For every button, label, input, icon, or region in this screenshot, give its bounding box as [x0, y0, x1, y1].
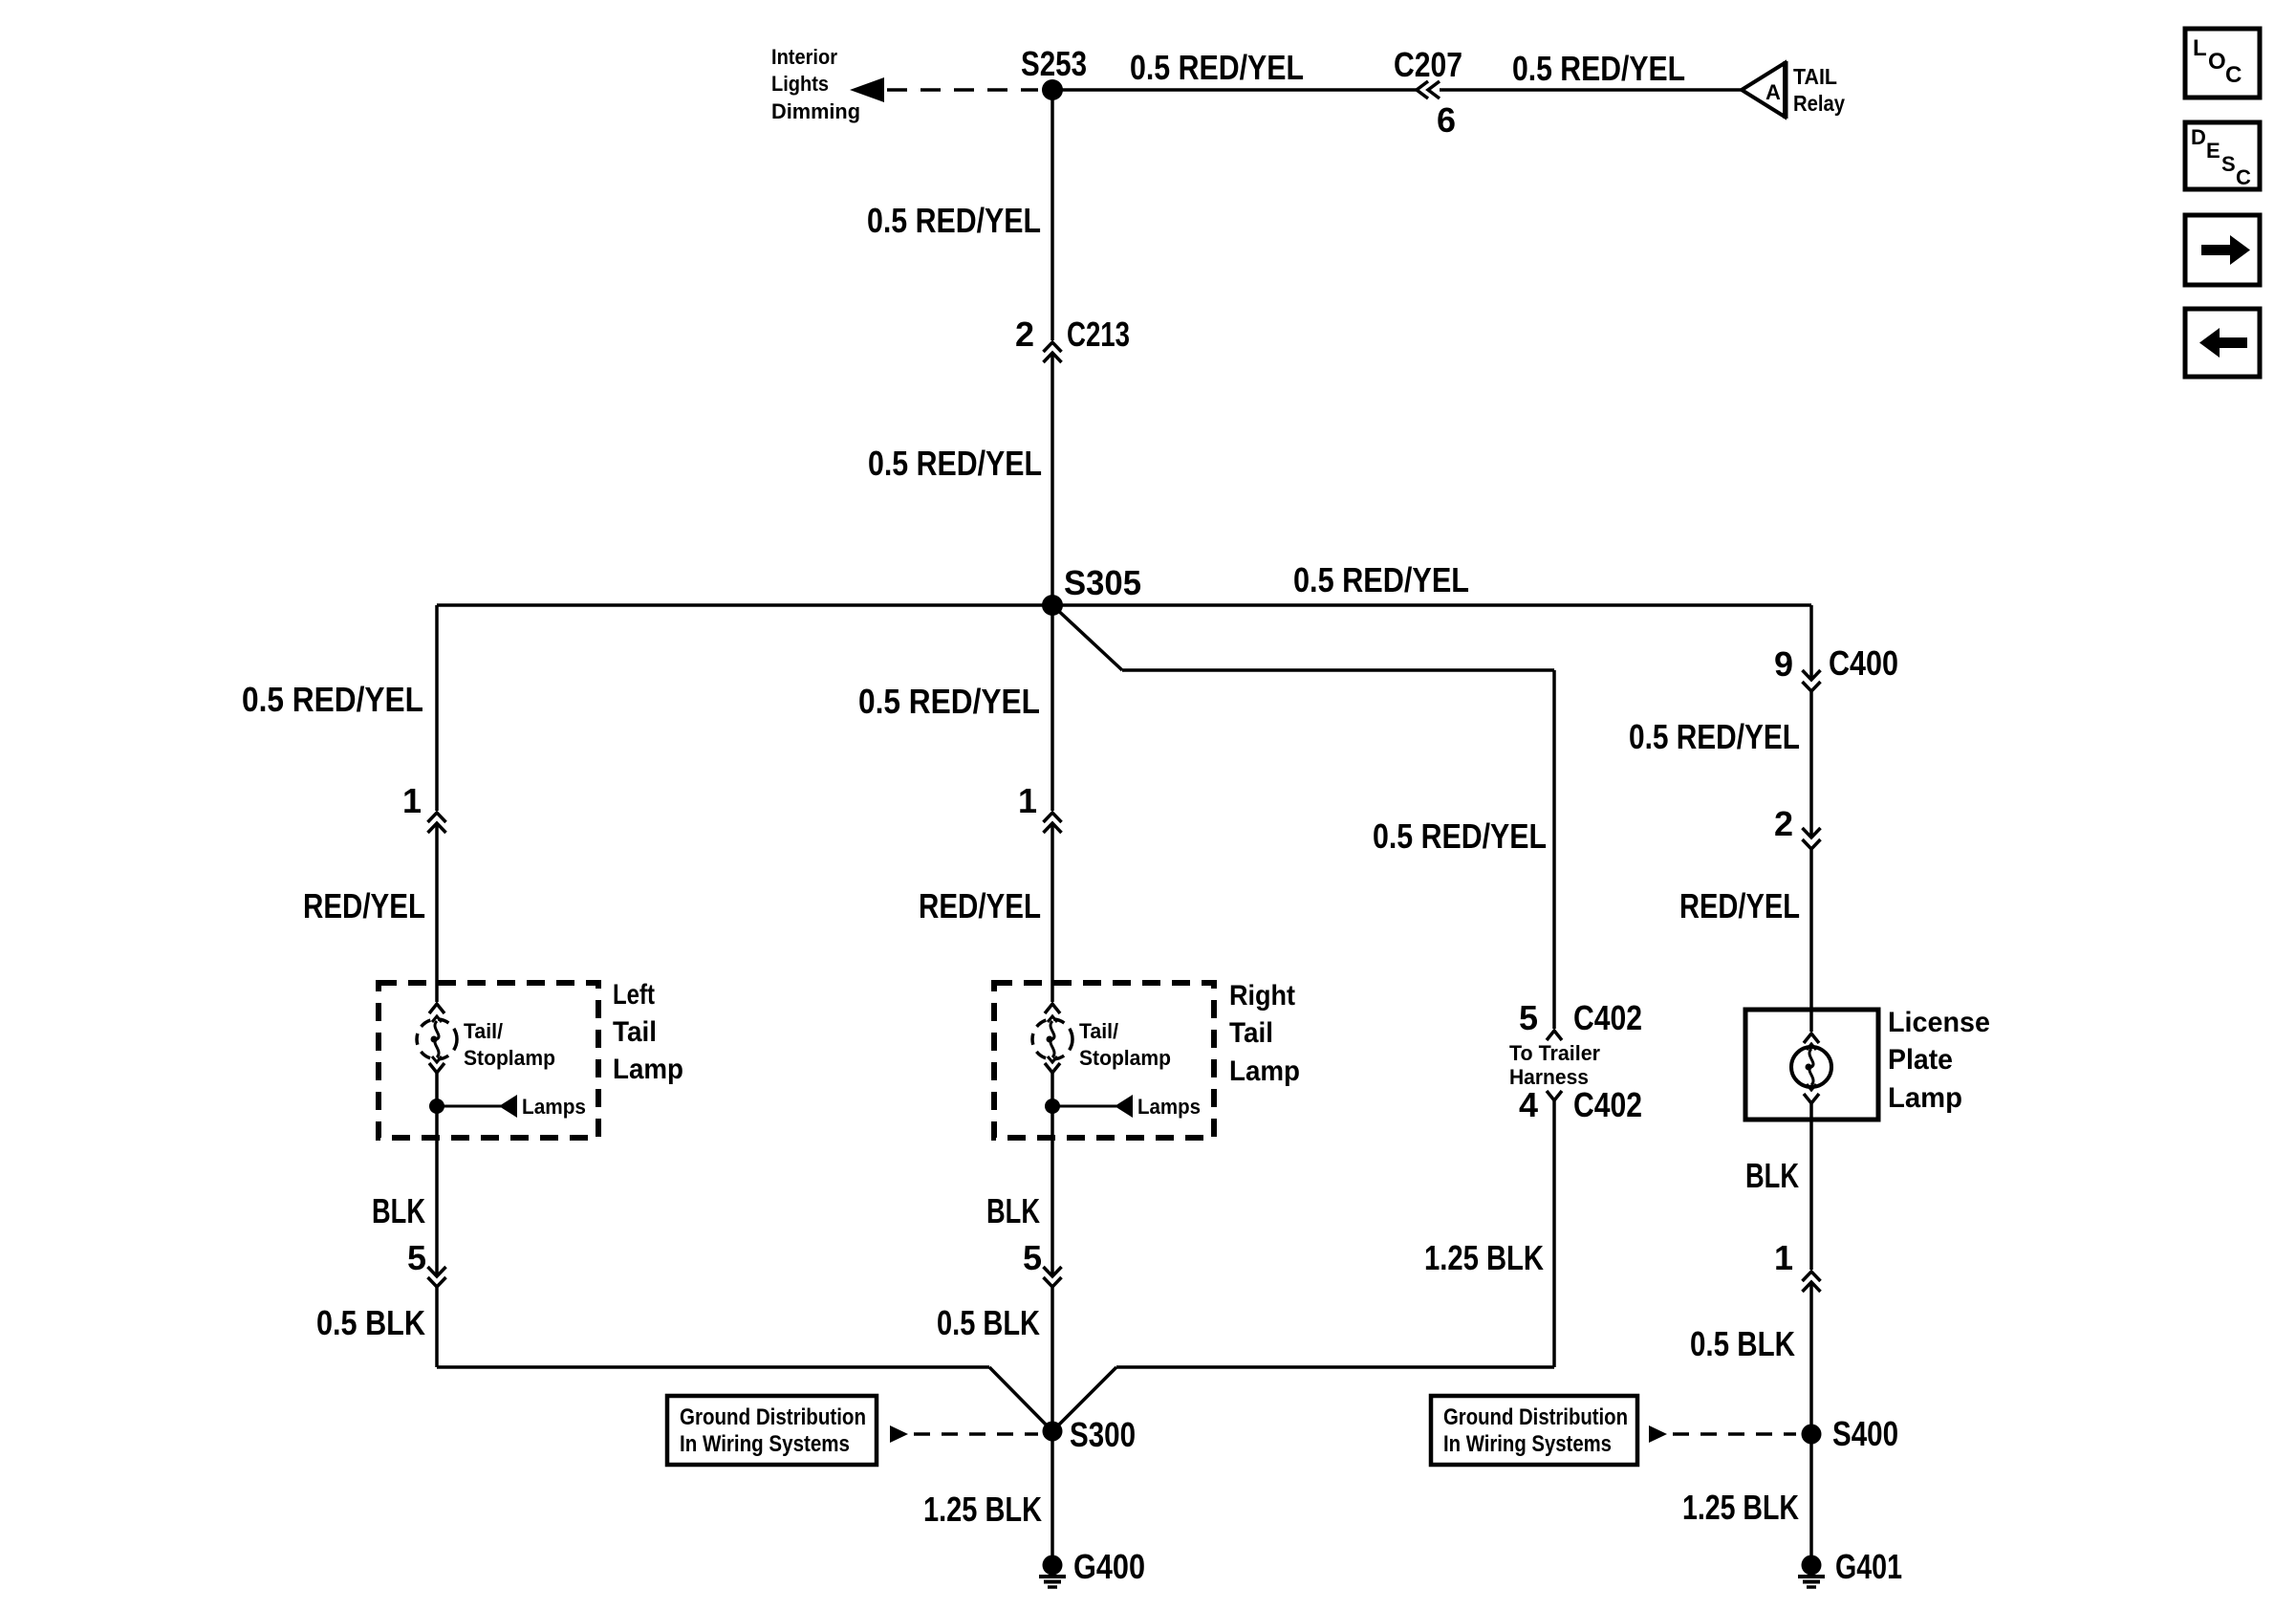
svg-text:5: 5 — [407, 1238, 426, 1277]
svg-text:RED/YEL: RED/YEL — [1679, 886, 1800, 925]
svg-text:9: 9 — [1774, 644, 1793, 684]
svg-text:2: 2 — [1774, 804, 1793, 843]
svg-text:S: S — [2221, 152, 2236, 176]
svg-text:BLK: BLK — [372, 1191, 425, 1230]
svg-text:C: C — [2236, 165, 2251, 189]
svg-text:C402: C402 — [1573, 1085, 1642, 1124]
svg-text:Stoplamp: Stoplamp — [1079, 1046, 1171, 1070]
svg-text:C207: C207 — [1394, 45, 1462, 84]
svg-text:Lamp: Lamp — [613, 1054, 683, 1085]
svg-text:Right: Right — [1229, 980, 1295, 1012]
svg-text:In Wiring Systems: In Wiring Systems — [680, 1431, 850, 1457]
svg-text:Lamps: Lamps — [1137, 1095, 1201, 1119]
svg-text:Lamp: Lamp — [1229, 1055, 1300, 1087]
svg-text:5: 5 — [1023, 1238, 1042, 1277]
svg-text:L: L — [2193, 35, 2207, 61]
svg-text:S305: S305 — [1064, 563, 1141, 602]
svg-text:C213: C213 — [1067, 315, 1130, 354]
svg-text:Interior: Interior — [771, 45, 837, 69]
svg-text:0.5 RED/YEL: 0.5 RED/YEL — [1373, 816, 1547, 856]
svg-text:Plate: Plate — [1888, 1044, 1953, 1076]
svg-text:Tail: Tail — [613, 1016, 657, 1048]
svg-text:To Trailer: To Trailer — [1509, 1041, 1600, 1065]
svg-text:E: E — [2206, 139, 2220, 163]
svg-text:0.5 RED/YEL: 0.5 RED/YEL — [1629, 717, 1800, 756]
svg-text:C400: C400 — [1829, 643, 1898, 683]
svg-text:RED/YEL: RED/YEL — [919, 886, 1041, 925]
svg-text:S253: S253 — [1021, 44, 1087, 83]
svg-text:0.5 RED/YEL: 0.5 RED/YEL — [1512, 49, 1685, 88]
svg-text:2: 2 — [1015, 315, 1034, 354]
svg-text:In Wiring Systems: In Wiring Systems — [1443, 1431, 1612, 1457]
svg-text:S300: S300 — [1070, 1415, 1136, 1454]
svg-text:Lamps: Lamps — [522, 1095, 586, 1119]
svg-text:Dimming: Dimming — [771, 99, 860, 123]
svg-text:Left: Left — [613, 979, 655, 1011]
svg-text:0.5 RED/YEL: 0.5 RED/YEL — [242, 680, 423, 719]
svg-text:O: O — [2208, 49, 2226, 75]
svg-text:Tail/: Tail/ — [464, 1019, 503, 1043]
svg-text:Relay: Relay — [1793, 91, 1845, 116]
svg-text:C402: C402 — [1573, 998, 1642, 1037]
svg-text:Tail: Tail — [1229, 1017, 1273, 1049]
svg-text:Ground Distribution: Ground Distribution — [1443, 1404, 1628, 1430]
svg-text:C: C — [2225, 62, 2242, 88]
svg-text:1: 1 — [1018, 781, 1037, 820]
svg-text:0.5 RED/YEL: 0.5 RED/YEL — [858, 682, 1040, 721]
svg-text:Lights: Lights — [771, 72, 829, 96]
svg-text:1.25 BLK: 1.25 BLK — [1682, 1488, 1799, 1527]
svg-text:Lamp: Lamp — [1888, 1082, 1962, 1114]
svg-text:5: 5 — [1519, 998, 1538, 1037]
svg-text:4: 4 — [1519, 1085, 1538, 1124]
svg-text:Ground Distribution: Ground Distribution — [680, 1404, 866, 1430]
svg-text:0.5 RED/YEL: 0.5 RED/YEL — [1293, 560, 1469, 599]
svg-text:G401: G401 — [1835, 1547, 1902, 1586]
svg-text:0.5 BLK: 0.5 BLK — [316, 1303, 425, 1342]
svg-text:0.5 RED/YEL: 0.5 RED/YEL — [868, 444, 1042, 483]
svg-text:BLK: BLK — [986, 1191, 1040, 1230]
svg-text:0.5 BLK: 0.5 BLK — [1690, 1324, 1795, 1363]
svg-text:1: 1 — [402, 781, 422, 820]
svg-text:D: D — [2191, 125, 2206, 149]
svg-text:1.25 BLK: 1.25 BLK — [1424, 1238, 1544, 1277]
svg-text:1: 1 — [1774, 1238, 1793, 1277]
svg-text:RED/YEL: RED/YEL — [303, 886, 425, 925]
svg-text:G400: G400 — [1073, 1547, 1145, 1586]
svg-text:0.5 BLK: 0.5 BLK — [937, 1303, 1040, 1342]
svg-text:S400: S400 — [1832, 1414, 1898, 1453]
svg-text:6: 6 — [1437, 100, 1456, 140]
svg-text:BLK: BLK — [1745, 1156, 1799, 1195]
svg-text:1.25 BLK: 1.25 BLK — [923, 1490, 1042, 1529]
svg-text:Tail/: Tail/ — [1079, 1019, 1118, 1043]
svg-text:License: License — [1888, 1007, 1990, 1038]
svg-text:TAIL: TAIL — [1793, 64, 1837, 89]
svg-text:0.5 RED/YEL: 0.5 RED/YEL — [867, 201, 1041, 240]
svg-text:A: A — [1765, 80, 1781, 104]
svg-text:Stoplamp: Stoplamp — [464, 1046, 555, 1070]
svg-text:0.5 RED/YEL: 0.5 RED/YEL — [1130, 48, 1304, 87]
